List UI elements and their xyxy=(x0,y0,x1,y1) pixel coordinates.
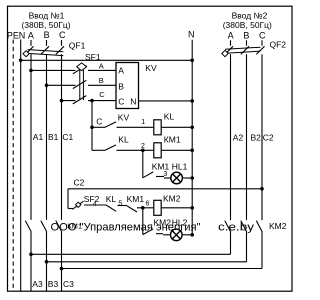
wire row4 seg1 xyxy=(84,204,106,206)
node bus B xyxy=(45,260,49,264)
wire node6 down xyxy=(142,208,144,235)
svg-text:A1: A1 xyxy=(33,132,44,142)
node 2 xyxy=(141,149,145,153)
node KV N out xyxy=(190,99,194,103)
wire phase A vertical xyxy=(30,40,32,291)
svg-text:KV: KV xyxy=(145,63,157,73)
wire row2 left xyxy=(92,149,105,151)
node C2 tap xyxy=(260,187,264,191)
svg-text:KL: KL xyxy=(106,194,117,204)
svg-text:SF2: SF2 xyxy=(84,194,100,204)
node N tap xyxy=(19,59,23,63)
svg-text:N: N xyxy=(188,30,195,40)
coil KM1 xyxy=(154,143,161,158)
wire phase A2 vertical xyxy=(230,40,232,254)
svg-text:Ввод №1: Ввод №1 xyxy=(29,11,65,21)
wire row1 left xyxy=(92,126,105,128)
svg-text:B: B xyxy=(243,31,249,41)
wire phase C vertical xyxy=(61,40,63,291)
node C tap xyxy=(60,99,64,103)
wire A tap xyxy=(31,69,116,71)
svg-text:KM2: KM2 xyxy=(154,217,172,227)
contact KM2 row5 xyxy=(143,229,153,235)
node bus C xyxy=(60,267,64,271)
svg-text:B: B xyxy=(44,30,50,40)
switch SF2 xyxy=(72,201,83,209)
wire PE dashed xyxy=(12,40,14,292)
svg-text:C1: C1 xyxy=(62,132,73,142)
node row5 N end xyxy=(190,233,194,237)
svg-text:C3: C3 xyxy=(63,279,74,289)
node row1 branch xyxy=(90,126,94,130)
svg-text:C: C xyxy=(99,90,105,99)
svg-text:N: N xyxy=(19,30,26,40)
svg-text:B: B xyxy=(99,76,104,85)
node C branch xyxy=(90,99,94,103)
svg-text:C: C xyxy=(118,96,124,106)
wire row1 mid xyxy=(117,126,154,128)
wire row3 to lamp xyxy=(164,177,171,179)
wire N vertical xyxy=(20,40,22,292)
svg-text:B: B xyxy=(118,81,124,91)
svg-text:KL: KL xyxy=(118,134,129,144)
svg-text:KM2: KM2 xyxy=(163,193,181,203)
svg-text:KM1: KM1 xyxy=(152,161,170,171)
svg-text:A: A xyxy=(228,31,234,41)
svg-text:N: N xyxy=(130,96,136,106)
wire row1 right xyxy=(161,126,192,128)
breaker QF1 xyxy=(23,46,64,56)
wire phase B2 vertical xyxy=(246,40,248,261)
wire row3 right xyxy=(182,177,192,179)
svg-text:A2: A2 xyxy=(233,132,244,142)
svg-text:B3: B3 xyxy=(48,279,59,289)
wire row5 to lamp xyxy=(163,234,171,236)
wire row5 tick xyxy=(156,233,163,235)
svg-text:C: C xyxy=(96,116,102,126)
svg-text:(380В, 50Гц): (380В, 50Гц) xyxy=(223,20,272,30)
svg-text:HL2: HL2 xyxy=(172,217,188,227)
svg-text:A: A xyxy=(28,30,34,40)
wire C tap xyxy=(62,100,117,102)
svg-text:PE: PE xyxy=(7,30,19,40)
wire N bus vertical xyxy=(191,40,193,235)
svg-text:KL: KL xyxy=(164,111,175,121)
svg-text:C2: C2 xyxy=(263,132,274,142)
wire N tap horizontal xyxy=(21,59,193,61)
wire row3 tick xyxy=(156,176,164,178)
wire row4 seg3 xyxy=(137,207,154,209)
node A tap xyxy=(29,69,33,73)
svg-text:A3: A3 xyxy=(32,279,43,289)
contact KM1 row3 xyxy=(143,172,153,178)
wire KV N out xyxy=(139,100,193,102)
svg-text:c.e.by: c.e.by xyxy=(218,222,255,234)
svg-text:C: C xyxy=(259,31,266,41)
svg-text:C2: C2 xyxy=(74,177,85,187)
node bus A xyxy=(29,253,33,257)
lamp HL2 xyxy=(171,229,183,241)
svg-text:КМ1: КМ1 xyxy=(67,222,82,231)
svg-text:B2: B2 xyxy=(251,132,262,142)
svg-text:5: 5 xyxy=(118,200,122,207)
node 6 xyxy=(141,206,145,210)
svg-text:1: 1 xyxy=(141,119,145,126)
svg-text:C: C xyxy=(59,30,66,40)
svg-text:HL1: HL1 xyxy=(172,161,188,171)
node row3 N xyxy=(190,176,194,180)
lamp HL1 xyxy=(171,172,183,184)
wire row4 left xyxy=(68,208,73,210)
contact KL row4 xyxy=(106,205,116,211)
svg-text:6: 6 xyxy=(145,201,149,208)
wire bus A xyxy=(31,253,231,255)
node N bus top tap xyxy=(190,59,194,63)
node row4 N xyxy=(190,206,194,210)
node row2 N xyxy=(190,149,194,153)
wire C branch vertical xyxy=(91,101,93,151)
svg-text:КМ1: КМ1 xyxy=(164,135,181,145)
svg-text:4: 4 xyxy=(93,201,97,208)
contact KL row2 xyxy=(105,145,116,150)
coil KL xyxy=(154,120,161,135)
svg-text:B1: B1 xyxy=(48,132,59,142)
wire bus B xyxy=(47,261,247,263)
node B tap xyxy=(45,84,49,88)
svg-text:SF1: SF1 xyxy=(85,52,101,62)
wire B tap xyxy=(47,84,117,86)
wire phase B vertical xyxy=(46,40,48,291)
contactor KM2 main contacts xyxy=(225,221,262,233)
svg-text:A: A xyxy=(99,61,104,70)
wire row4 right xyxy=(161,207,192,209)
wire row5 right xyxy=(182,234,192,236)
coil KM2 xyxy=(154,200,161,215)
wire C2 horizontal xyxy=(68,188,262,190)
svg-text:KM2: KM2 xyxy=(269,221,287,231)
wire phase C2 vertical xyxy=(261,40,263,268)
switch SF1 xyxy=(73,63,87,104)
contact KV row1 xyxy=(105,122,116,127)
wire node2 down xyxy=(142,150,144,178)
wire row4 seg2 xyxy=(118,205,128,207)
relay KV box U1 xyxy=(116,63,139,109)
svg-text:KM1: KM1 xyxy=(127,194,145,204)
wire C2 down xyxy=(67,189,69,209)
breaker QF2 xyxy=(222,46,265,56)
svg-text:KV: KV xyxy=(118,112,130,122)
svg-text:A: A xyxy=(118,66,124,76)
svg-text:QF2: QF2 xyxy=(270,40,287,50)
svg-text:QF1: QF1 xyxy=(69,40,86,50)
wire row2 mid xyxy=(117,149,154,151)
wire bus C xyxy=(62,268,263,270)
contact KM1 row4 xyxy=(127,206,137,212)
contactor KM1 main contacts xyxy=(25,221,62,232)
node row1 N xyxy=(190,126,194,130)
wire row2 right xyxy=(161,149,192,151)
svg-text:(380В, 50Гц): (380В, 50Гц) xyxy=(21,20,70,30)
